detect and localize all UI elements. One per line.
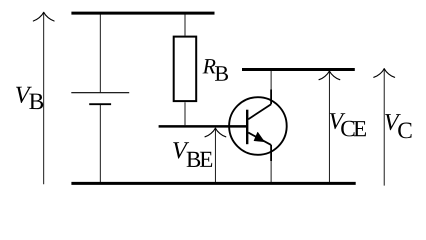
arrow V_CE (collector-emitter measurement arrow) <box>319 71 340 183</box>
label V_C <box>385 114 411 138</box>
wire: collector rail to transistor <box>270 71 272 90</box>
transistor Q1 (npn) <box>229 90 287 162</box>
resistor R_B body <box>174 37 197 102</box>
wire: collector rail <box>242 68 355 71</box>
wire: transistor emitter to bottom rail <box>270 161 272 183</box>
label V_BE <box>173 142 212 167</box>
battery V_B source <box>71 93 129 105</box>
arrow V_C (collector voltage arrow) <box>374 69 395 186</box>
arrow V_BE (base-emitter measurement arrow) <box>205 128 226 182</box>
wire: resistor to base line <box>184 102 186 125</box>
wire: top rail to resistor <box>184 15 186 36</box>
wire: top supply rail <box>71 12 214 15</box>
wire: top rail to battery <box>99 15 101 93</box>
label V_B <box>16 87 43 109</box>
arrow V_B (left measurement arrow) <box>33 12 54 184</box>
wire: bottom ground rail <box>71 182 355 185</box>
wire: battery to bottom rail <box>99 105 101 183</box>
label V_CE <box>330 113 366 136</box>
wire: base lead (thick) <box>159 125 247 128</box>
label R_B <box>203 59 228 81</box>
